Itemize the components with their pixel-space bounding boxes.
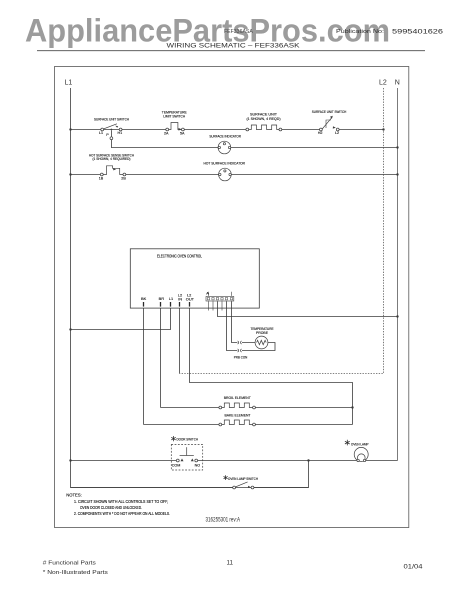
svg-text:OVEN LAMP: OVEN LAMP xyxy=(351,441,369,446)
junction doorrow-lampswitch riser xyxy=(307,459,309,461)
terminal P pilot circle xyxy=(110,137,113,140)
svg-text:OVEN LAMP SWITCH: OVEN LAMP SWITCH xyxy=(228,476,258,481)
svg-text:HOT SURFACE INDICATOR: HOT SURFACE INDICATOR xyxy=(204,161,246,166)
lamp hot surface indicator xyxy=(204,161,246,181)
notes text xyxy=(66,492,170,516)
svg-text:L1: L1 xyxy=(169,296,173,301)
svg-text:L1: L1 xyxy=(99,131,103,135)
wire L2 OUT to elements xyxy=(190,308,353,424)
junction EOC-N on N bus xyxy=(396,315,398,317)
svg-text:L1: L1 xyxy=(65,79,73,86)
wire L1 bus xyxy=(71,88,309,488)
svg-text:2A: 2A xyxy=(164,131,169,135)
svg-text:BROIL ELEMENT: BROIL ELEMENT xyxy=(224,395,251,400)
wire oven lamp switch row xyxy=(71,461,309,488)
svg-text:N: N xyxy=(395,79,400,86)
svg-text:NOTES:: NOTES: xyxy=(66,492,82,497)
svg-text:PRB CON: PRB CON xyxy=(234,354,248,359)
svg-text:BK: BK xyxy=(141,296,147,301)
wire N bus xyxy=(397,88,399,461)
junction broil-L2OUT xyxy=(351,406,353,408)
wire EOC-N neutral xyxy=(218,301,398,316)
svg-text:2B: 2B xyxy=(121,177,126,181)
svg-text:5A: 5A xyxy=(180,131,185,135)
lamp oven lamp xyxy=(345,440,369,462)
svg-text:H1: H1 xyxy=(118,131,123,135)
wire row3 hot surface circuit xyxy=(71,174,398,176)
pin L2 OUT xyxy=(186,293,195,307)
pin L2 IN xyxy=(178,293,182,307)
svg-text:LIMIT SWITCH: LIMIT SWITCH xyxy=(163,113,185,118)
svg-text:IN: IN xyxy=(178,296,182,301)
connector A block xyxy=(206,292,234,301)
pin L1 xyxy=(169,296,173,307)
wire pin4 stub xyxy=(221,301,223,310)
junction row3-L1bus xyxy=(69,173,71,175)
svg-text:OVEN DOOR CLOSED AND UNLOCKED.: OVEN DOOR CLOSED AND UNLOCKED. xyxy=(80,505,142,510)
wire door switch row xyxy=(71,460,398,462)
resistor temperature probe xyxy=(251,326,274,349)
svg-text:1B: 1B xyxy=(99,177,104,181)
svg-text:2. COMPONENTS WITH * DO NOT: 2. COMPONENTS WITH * DO NOT APPEAR ON AL… xyxy=(74,511,170,516)
svg-text:316255301 rev:A: 316255301 rev:A xyxy=(206,517,241,524)
schematic frame xyxy=(55,67,409,528)
svg-text:# Functional Parts: # Functional Parts xyxy=(43,560,96,566)
svg-text:COM: COM xyxy=(172,464,181,468)
wire L2 bus (dashed) xyxy=(180,88,384,374)
connector PRB CON xyxy=(234,341,248,359)
svg-text:* Non-Illustrated Parts: * Non-Illustrated Parts xyxy=(43,570,108,576)
svg-text:BAKE ELEMENT: BAKE ELEMENT xyxy=(225,413,251,418)
resistor broil element xyxy=(161,395,353,409)
pin BK xyxy=(141,296,147,307)
switch S1 surface unit switch (L1,P,H1) xyxy=(94,116,129,137)
svg-text:WIRING SCHEMATIC – FEF336ASK: WIRING SCHEMATIC – FEF336ASK xyxy=(167,43,301,50)
junction L1wire-L1bus xyxy=(69,328,71,330)
svg-text:Publication No:: Publication No: xyxy=(336,29,384,35)
resistor surface unit element xyxy=(246,112,282,131)
svg-text:L2: L2 xyxy=(379,79,387,86)
svg-text:SURFACE INDICATOR: SURFACE INDICATOR xyxy=(209,133,241,138)
switch S5 door switch (COM,NO) xyxy=(171,436,202,470)
wire pin1 stub xyxy=(208,301,210,310)
resistor bake element xyxy=(144,413,353,426)
wire pin2 stub xyxy=(212,301,214,310)
wire row2 surface indicator branch xyxy=(111,131,397,148)
svg-text:SURFACE UNIT SWITCH: SURFACE UNIT SWITCH xyxy=(312,109,347,114)
pin BR xyxy=(159,296,165,307)
switch S3 surface unit switch (H2,L2) xyxy=(312,109,347,135)
op-amp U1 electronic oven control box xyxy=(130,249,259,308)
svg-text:1. CIRCUIT SHOWN WITH ALL CON: 1. CIRCUIT SHOWN WITH ALL CONTROLS SET T… xyxy=(74,499,168,504)
svg-text:5995401626: 5995401626 xyxy=(392,29,444,36)
junction row3-N xyxy=(396,173,398,175)
switch S2 temperature limit switch (2A,5A) xyxy=(162,110,187,136)
svg-text:L2: L2 xyxy=(335,131,339,135)
svg-text:SURFACE UNIT SWITCH: SURFACE UNIT SWITCH xyxy=(94,116,129,121)
lamp surface indicator xyxy=(209,133,241,154)
svg-text:DOOR SWITCH: DOOR SWITCH xyxy=(177,436,199,441)
svg-text:NO: NO xyxy=(195,464,201,468)
svg-text:FEF336ASA: FEF336ASA xyxy=(224,29,253,35)
svg-text:BR: BR xyxy=(159,296,165,301)
wire BK drop xyxy=(143,308,145,424)
svg-text:11: 11 xyxy=(227,560,234,567)
switch S6 oven lamp switch xyxy=(224,475,259,489)
svg-text:(1 SHOWN, 4 REQUIRED): (1 SHOWN, 4 REQUIRED) xyxy=(93,156,132,161)
svg-text:OUT: OUT xyxy=(186,296,195,301)
wire probe bottom lead xyxy=(227,301,276,350)
svg-text:01/04: 01/04 xyxy=(404,563,424,570)
svg-text:PROBE: PROBE xyxy=(256,330,268,335)
wire L2 IN drop xyxy=(179,308,181,373)
wire probe top lead xyxy=(232,301,256,342)
junction row1-L2bus xyxy=(382,128,384,130)
svg-text:(1 SHOWN, 4 REQD): (1 SHOWN, 4 REQD) xyxy=(247,116,282,121)
junction row1-L1bus xyxy=(69,128,71,130)
wire BR drop xyxy=(160,308,162,407)
switch S4 hot surface sense switch (1B,2B) xyxy=(89,152,134,180)
wire row1 surface-unit circuit xyxy=(71,129,384,131)
header rule xyxy=(37,50,425,52)
junction doorrow-L1bus xyxy=(69,459,71,461)
junction row2-N xyxy=(396,146,398,148)
svg-text:H2: H2 xyxy=(318,131,323,135)
wire L1 terminal to L1 bus xyxy=(71,308,171,329)
svg-text:ELECTRONIC OVEN CONTROL: ELECTRONIC OVEN CONTROL xyxy=(157,254,203,259)
